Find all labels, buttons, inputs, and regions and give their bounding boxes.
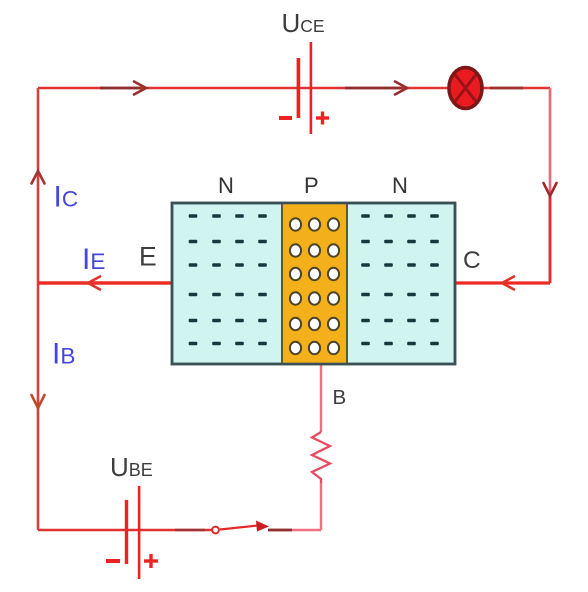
- svg-text:N: N: [392, 173, 408, 198]
- svg-text:C: C: [463, 247, 481, 274]
- svg-text:B: B: [333, 386, 347, 409]
- svg-text:P: P: [304, 173, 319, 198]
- svg-text:N: N: [218, 173, 234, 198]
- svg-text:E: E: [139, 242, 157, 272]
